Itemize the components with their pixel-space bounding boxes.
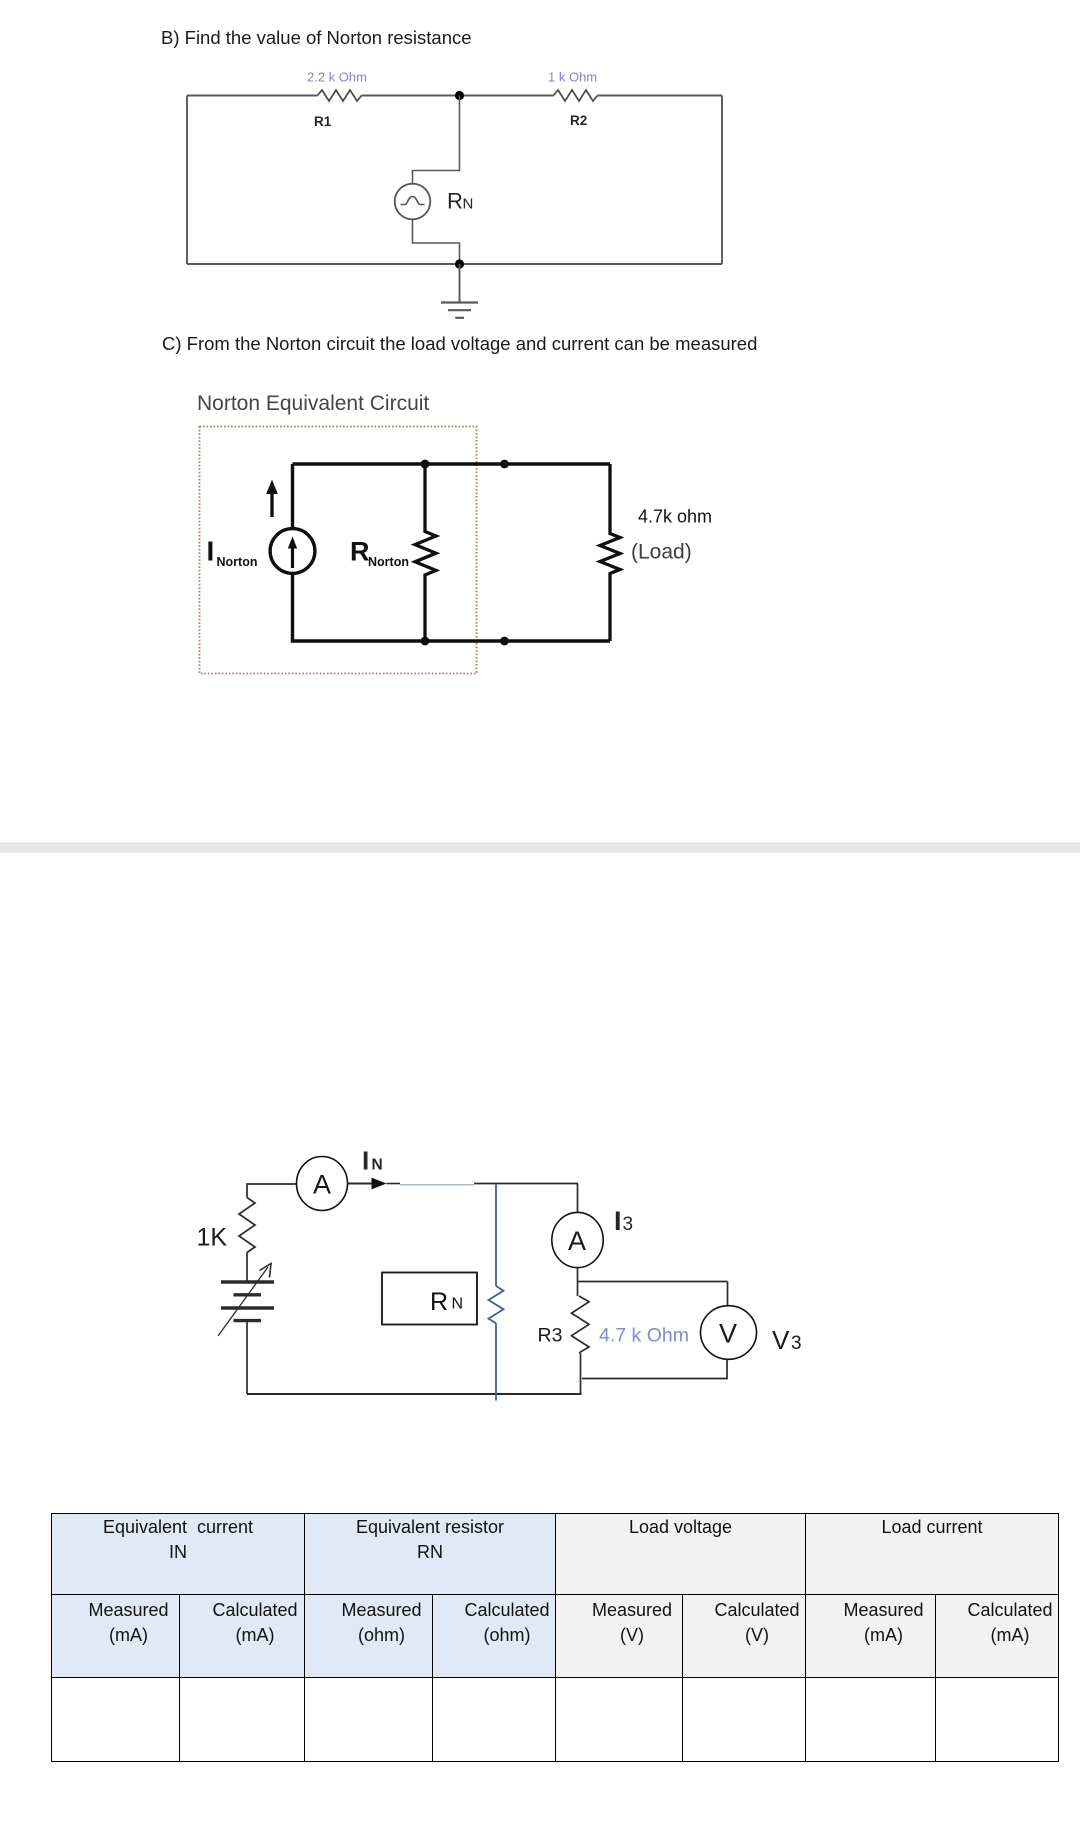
svg-text:V: V [772, 1325, 790, 1355]
svg-text:3: 3 [791, 1333, 802, 1354]
svg-text:N: N [372, 1157, 383, 1174]
svg-text:R2: R2 [570, 113, 587, 128]
resistor load 4.7k [600, 464, 620, 641]
ground [441, 264, 478, 318]
resistor R1 [318, 90, 362, 101]
svg-text:R: R [430, 1288, 448, 1316]
label IN [362, 1146, 383, 1176]
wire blue vertical lower [495, 1323, 497, 1400]
wire blue horizontal [400, 1184, 474, 1186]
svg-text:R1: R1 [314, 114, 332, 129]
wire from source to bottom node [413, 219, 460, 264]
wire bottom [247, 1393, 582, 1395]
svg-text:R: R [447, 189, 463, 214]
battery variable source [221, 1282, 274, 1321]
wire left side [186, 96, 188, 265]
wire battery to bottom [246, 1321, 248, 1394]
svg-text:3: 3 [623, 1214, 634, 1235]
wire R3 to bottom [580, 1353, 582, 1394]
current source INorton [270, 529, 315, 574]
ammeter A (I3) [552, 1212, 603, 1267]
wire top-left segment [187, 95, 318, 97]
wire voltmeter branch lower [582, 1359, 727, 1378]
wire voltmeter branch upper [727, 1282, 729, 1307]
wire bottom [187, 263, 722, 265]
label (Load) [631, 541, 692, 564]
svg-text:I: I [614, 1206, 622, 1236]
svg-text:4.7k ohm: 4.7k ohm [638, 507, 712, 527]
svg-text:Norton Equivalent Circuit: Norton Equivalent Circuit [197, 392, 429, 415]
wire right side [721, 96, 723, 265]
wire right branch upper [577, 1184, 579, 1213]
wire top-right horizontal [474, 1183, 578, 1185]
reference label R2 [570, 113, 587, 128]
wire ammeter to R3 [577, 1268, 579, 1297]
value label 4.7 k Ohm [599, 1325, 689, 1347]
ammeter A (IN) [297, 1157, 348, 1211]
wire top-left corner [247, 1184, 297, 1198]
current direction arrow above source [266, 480, 278, 518]
svg-text:R3: R3 [538, 1325, 563, 1347]
node junction bottom [455, 259, 464, 268]
wire bottom [425, 639, 610, 642]
svg-text:2.2 k Ohm: 2.2 k Ohm [307, 70, 367, 85]
svg-text:1 k Ohm: 1 k Ohm [548, 70, 597, 85]
resistor 1K [239, 1198, 255, 1253]
label RNorton [350, 537, 409, 570]
wire ammeter to arrow [348, 1183, 372, 1185]
node dot bottom at boundary [500, 637, 509, 646]
svg-text:A: A [313, 1170, 331, 1200]
SECTION-C-HEADING [162, 333, 757, 355]
label V3 [772, 1325, 802, 1355]
svg-text:R: R [350, 537, 370, 567]
node dot top at boundary [500, 460, 509, 469]
node dot top at RNorton [421, 460, 430, 469]
value label 1 k Ohm [548, 70, 597, 85]
svg-text:I: I [362, 1146, 369, 1176]
svg-text:1K: 1K [197, 1224, 228, 1252]
label 1K [197, 1224, 228, 1252]
reference label R1 [314, 114, 332, 129]
wire tap from top node to source [413, 96, 460, 184]
svg-text:Norton: Norton [368, 555, 409, 569]
node junction top [455, 91, 464, 100]
resistor R3 [572, 1296, 590, 1353]
svg-text:Norton: Norton [217, 555, 258, 569]
svg-text:A: A [568, 1226, 586, 1256]
label INorton [207, 536, 258, 570]
wire resistor to battery [246, 1253, 248, 1282]
page separator band [0, 842, 1080, 853]
title Norton Equivalent Circuit [197, 392, 429, 415]
dashed boundary box [200, 427, 477, 674]
value label 2.2 k Ohm [307, 70, 367, 85]
svg-text:4.7 k Ohm: 4.7 k Ohm [599, 1325, 689, 1347]
wire junction to voltmeter top [579, 1281, 728, 1283]
source RN circle [395, 184, 431, 220]
SECTION-B-HEADING [161, 27, 472, 49]
resistor RNorton [415, 464, 436, 641]
wire top-right segment [598, 95, 723, 97]
label RN [447, 189, 473, 214]
wire left upper [291, 464, 294, 529]
wire left lower [293, 574, 426, 642]
box RN [382, 1273, 477, 1325]
resistor R2 [554, 90, 598, 101]
voltmeter V [701, 1306, 757, 1360]
label R3 [538, 1325, 563, 1347]
measurement table [51, 1513, 1059, 1762]
current arrow head [372, 1178, 401, 1190]
svg-text:I: I [207, 536, 215, 567]
svg-text:V: V [719, 1319, 737, 1349]
svg-text:(Load): (Load) [631, 541, 692, 564]
variable arrow through battery [218, 1264, 271, 1337]
wire top-middle segment [362, 95, 554, 97]
svg-text:N: N [452, 1296, 464, 1313]
svg-text:N: N [463, 196, 474, 213]
label I3 [614, 1206, 633, 1236]
wire top [293, 462, 611, 465]
value label 4.7k ohm [638, 507, 712, 527]
resistor RN blue zigzag [489, 1286, 504, 1323]
wire blue vertical branch [495, 1184, 497, 1286]
node dot bottom at RNorton [421, 637, 430, 646]
